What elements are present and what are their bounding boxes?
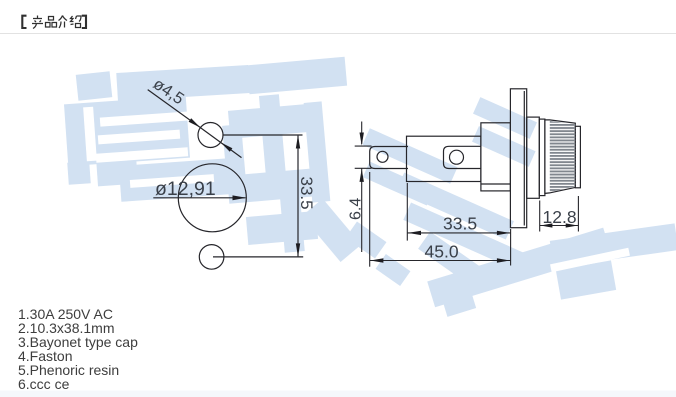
nut inner line bottom — [481, 183, 511, 185]
nut section — [481, 123, 511, 191]
header char chan — [32, 16, 43, 29]
wm zi tail piece — [440, 284, 476, 317]
leader line dia 4.5 chord through circle — [200, 128, 220, 143]
wm dian band 2 — [363, 162, 434, 206]
svg-text:6.4: 6.4 — [348, 198, 365, 220]
leader line dia 4.5 lower tail — [221, 142, 242, 157]
dim 6.4 tick bottom — [355, 167, 372, 169]
wm zi top bar — [550, 223, 676, 267]
flange inner edge line — [523, 91, 525, 226]
arrowhead dia4.5 lower — [221, 142, 233, 151]
ext line 12.8 right — [577, 196, 579, 232]
dim 6.4 upper leg — [361, 122, 363, 145]
bottom circle — [199, 245, 224, 270]
wm jia left vertical — [222, 124, 246, 181]
arrowhead 6.4 bottom — [360, 169, 364, 182]
ext line 33.5 left — [406, 183, 408, 241]
tab 1 hole — [377, 151, 388, 162]
header char pin — [46, 17, 57, 28]
arrowhead 45 right — [497, 258, 510, 262]
dim 6.4 tick top — [355, 145, 372, 147]
top circle — [198, 123, 223, 148]
wm jia hbar3 — [246, 211, 318, 245]
wm yi main block — [64, 96, 190, 166]
dim line 12.8 — [540, 225, 579, 227]
arrowhead 6.4 top — [360, 133, 364, 146]
cap rear lip — [539, 119, 545, 196]
wm jia tail swoosh — [302, 199, 361, 262]
knurl flutes fill — [550, 121, 576, 192]
dim line 33.5 left view — [297, 136, 299, 257]
svg-text:12.8: 12.8 — [543, 207, 577, 227]
wm jia top bar — [247, 57, 347, 94]
wm jia hbar2 — [227, 168, 317, 204]
arrowhead dia12.91 — [233, 195, 247, 200]
wm jia hbar1 — [228, 103, 318, 139]
tab 2 hole — [450, 150, 464, 164]
wm yi small square — [76, 71, 113, 100]
dim 6.4 lower leg — [361, 169, 363, 253]
spec list — [18, 307, 138, 391]
dim line 33.5 — [407, 232, 510, 234]
dim line 45.0 — [370, 260, 511, 262]
arrowhead dia4.5 upper — [189, 118, 201, 127]
wm zi white slot — [550, 248, 630, 272]
wm bottom band — [0, 391, 676, 397]
wm zi mid piece — [556, 260, 616, 299]
wm jia vertical mid lower — [279, 187, 305, 252]
wm yi lower piece left — [67, 161, 90, 184]
header char jie — [59, 16, 68, 29]
dimension lines right view — [355, 122, 579, 267]
leader line dia 4.5 upper segment — [148, 90, 201, 128]
wm jia vertical right — [304, 101, 331, 202]
wm dian band 1 — [362, 128, 457, 183]
arrowhead 33.5L top — [296, 135, 300, 149]
wm zi small fragment — [376, 254, 411, 286]
wm zi diagonal — [427, 228, 611, 308]
wm fragment mid — [346, 221, 387, 258]
ext line 12.8 left — [539, 201, 541, 232]
header char shao — [71, 16, 82, 28]
arrowhead 33.5 left — [408, 231, 421, 235]
wm jia vertical mid upper — [259, 94, 287, 189]
wm yi white slot lower — [130, 174, 214, 188]
flange — [510, 89, 526, 228]
wm yi white slot 2 — [98, 130, 180, 145]
wm yi white slot 1 — [100, 111, 190, 126]
wm zi steep piece — [418, 232, 479, 284]
wire top circle to dim — [223, 134, 303, 136]
svg-text:33.5: 33.5 — [443, 214, 477, 234]
big circle — [178, 164, 246, 232]
svg-text:33.5: 33.5 — [297, 177, 316, 210]
arrow line dia 12.91 — [153, 197, 245, 199]
wm dian band 3 — [396, 172, 514, 239]
wm dian band 6 — [472, 126, 536, 167]
knurl body outline — [545, 120, 575, 194]
ext line flange — [510, 229, 512, 266]
header divider — [0, 33, 676, 34]
end disc — [575, 126, 580, 188]
arrowhead 45 left — [370, 258, 383, 262]
wire bottom circle to dim — [213, 256, 303, 258]
arrowhead 12.8 left — [540, 223, 552, 227]
wm yi white slot 3 — [96, 147, 188, 162]
arrowhead 12.8 right — [566, 223, 578, 227]
terminal tab 2 — [444, 146, 482, 168]
body — [407, 136, 481, 181]
ext line 45 left — [369, 172, 371, 267]
wm dian band 5 — [473, 97, 537, 139]
svg-text:45.0: 45.0 — [425, 242, 459, 262]
wm yi white vslot — [83, 107, 97, 162]
wm dian band 4 — [403, 203, 524, 271]
arrowhead 33.5 right — [497, 231, 510, 235]
terminal tab 1 — [370, 147, 408, 169]
wm yi lower piece right — [119, 158, 231, 202]
wm yi lower piece mid — [96, 156, 138, 187]
wm yi top bar — [116, 65, 249, 101]
arrowhead 33.5L bottom — [296, 243, 300, 257]
svg-text:ø12,91: ø12,91 — [155, 178, 216, 200]
header bracket right — [82, 16, 86, 28]
collar — [527, 117, 540, 198]
header bracket left — [22, 16, 26, 28]
